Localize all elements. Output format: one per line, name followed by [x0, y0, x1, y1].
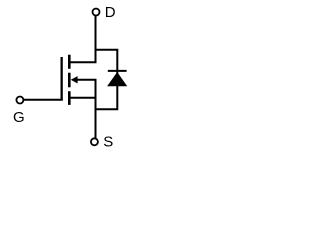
channel source segment	[68, 91, 71, 105]
body arrow head	[71, 76, 78, 83]
svg-text:D: D	[105, 4, 116, 21]
transistor Q1 N-channel MOSFET	[62, 55, 78, 105]
node G terminal circle	[16, 97, 23, 104]
node D terminal circle	[93, 9, 100, 16]
diode cathode bar	[108, 70, 127, 72]
svg-text:G: G	[13, 109, 25, 126]
wire source stub	[69, 97, 95, 99]
channel body segment	[68, 73, 71, 88]
wire drain: from D terminal down to drain stub	[69, 16, 95, 62]
node S terminal circle	[91, 138, 98, 145]
wire diode branch: top horizontal, right vertical, bottom horizontal	[96, 50, 118, 110]
wire body stub to source vertical down to S terminal	[77, 80, 96, 138]
svg-text:S: S	[103, 133, 113, 150]
channel drain segment	[68, 55, 71, 69]
diode D1 body diode	[107, 71, 127, 86]
diode anode triangle	[107, 72, 127, 86]
wire gate: from G terminal to gate line	[23, 99, 63, 101]
gate line	[61, 57, 63, 100]
